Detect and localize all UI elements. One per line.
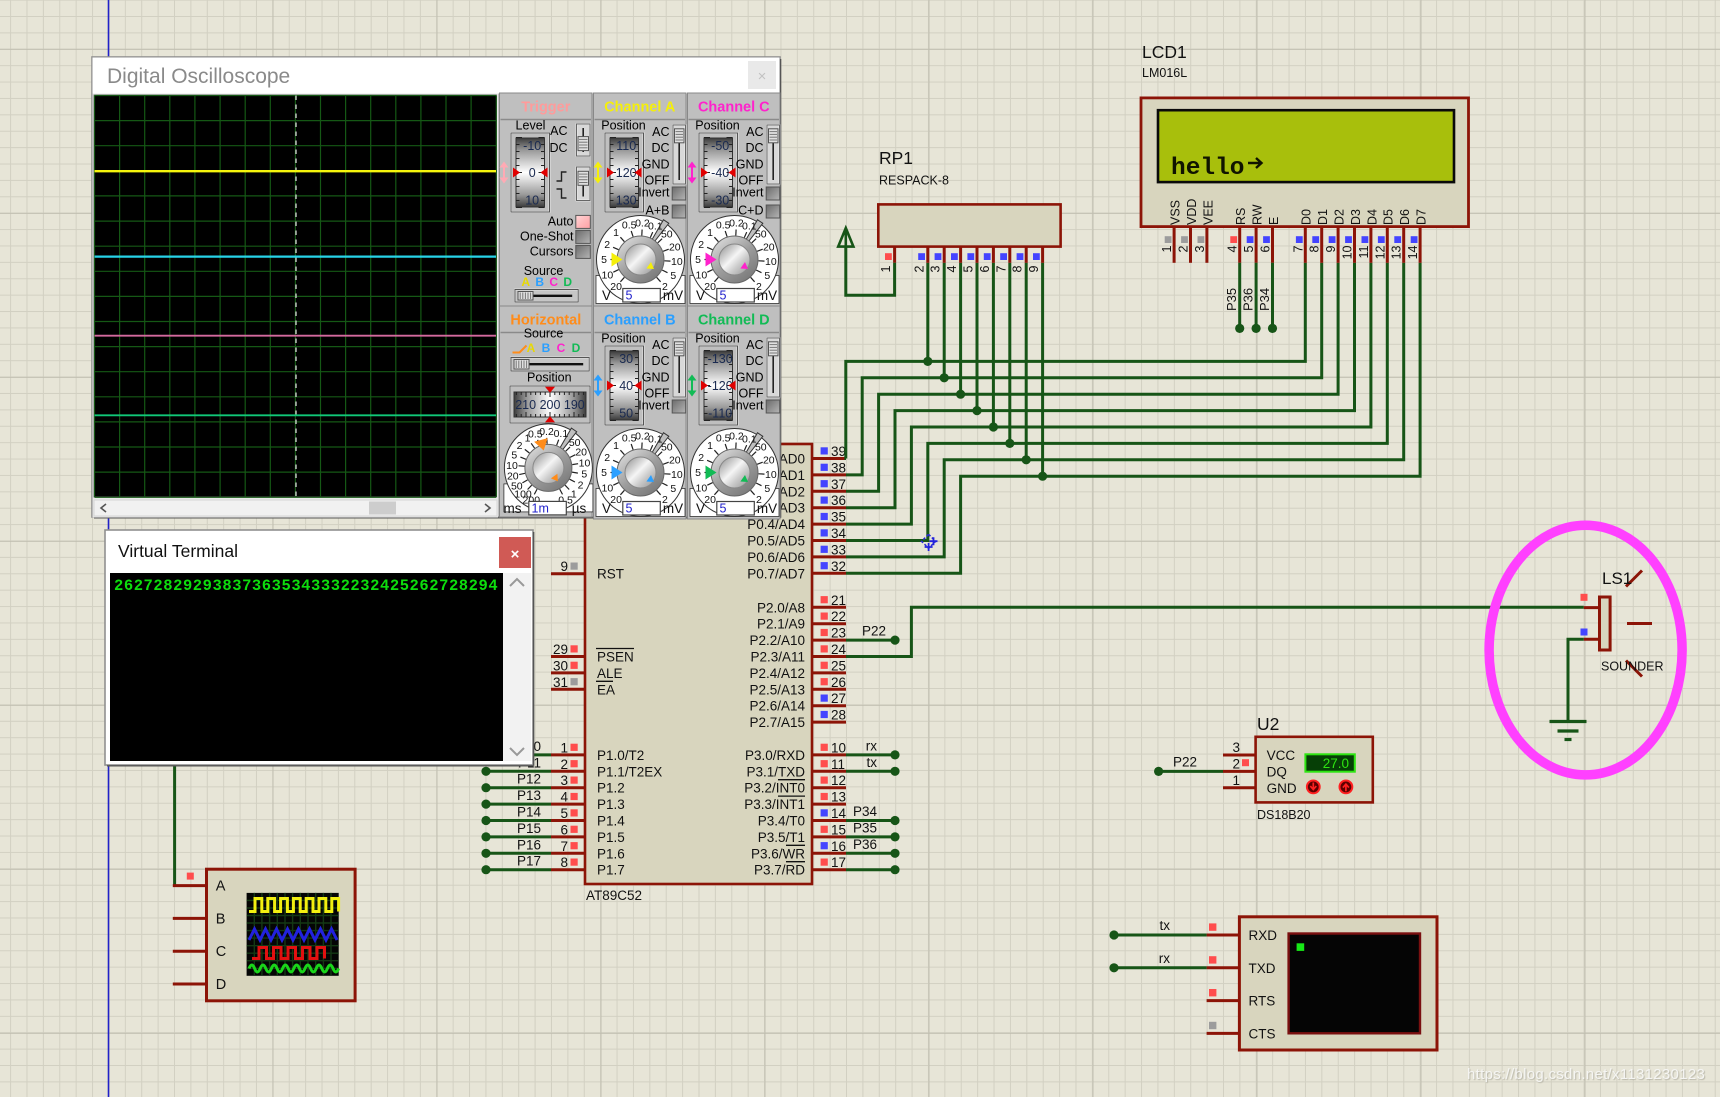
svg-text:tx: tx xyxy=(866,755,877,770)
wire RP1 pin 4 to bus xyxy=(959,263,962,394)
svg-text:-110: -110 xyxy=(708,407,732,421)
svg-text:B: B xyxy=(535,275,544,289)
Channel A panel xyxy=(594,93,687,306)
RP1 pin 9 xyxy=(1041,247,1044,263)
pin 25 stub (right) xyxy=(812,671,846,674)
svg-text:D3: D3 xyxy=(1349,209,1363,225)
svg-text:RST: RST xyxy=(597,567,624,582)
wire net P16 xyxy=(486,852,551,855)
trace D xyxy=(95,414,497,416)
svg-text:33: 33 xyxy=(831,542,846,557)
svg-text:One-Shot: One-Shot xyxy=(520,230,574,244)
svg-text:AC: AC xyxy=(652,338,669,352)
power symbol (VCC arrow) xyxy=(846,247,895,296)
svg-text:27.0: 27.0 xyxy=(1323,756,1349,771)
wire RP1 pin 7 to bus xyxy=(1008,263,1011,444)
svg-text:AT89C52: AT89C52 xyxy=(586,888,642,903)
svg-text:P1.0/T2: P1.0/T2 xyxy=(597,748,644,763)
svg-text:mV: mV xyxy=(663,288,683,303)
svg-text:5: 5 xyxy=(695,254,701,266)
svg-text:2: 2 xyxy=(698,452,704,464)
junction xyxy=(972,406,981,415)
scope pin B xyxy=(173,917,207,920)
svg-text:-10: -10 xyxy=(523,139,541,153)
svg-text:Digital Oscilloscope: Digital Oscilloscope xyxy=(107,65,290,88)
wire net P11 xyxy=(486,770,551,773)
svg-text:31: 31 xyxy=(553,675,568,690)
pin 33 stub (right) xyxy=(812,555,846,558)
oscilloscope window xyxy=(92,57,780,517)
svg-text:rx: rx xyxy=(1159,951,1170,966)
wire RP1 pin 5 to bus xyxy=(976,263,979,411)
svg-text:27: 27 xyxy=(831,691,846,706)
wire on P3.1 xyxy=(846,770,895,773)
svg-text:10: 10 xyxy=(765,256,777,268)
LCD pin 3 VEE xyxy=(1205,227,1208,263)
svg-text:D6: D6 xyxy=(1398,209,1412,225)
svg-text:P17: P17 xyxy=(517,854,541,869)
svg-text:Channel D: Channel D xyxy=(698,313,770,329)
svg-text:P36: P36 xyxy=(1241,288,1256,311)
svg-text:5: 5 xyxy=(962,265,976,272)
pin 1 stub (left) xyxy=(551,753,585,756)
wire net P22 to U2 DQ xyxy=(1159,770,1223,773)
svg-text:110: 110 xyxy=(616,139,636,153)
svg-text:5: 5 xyxy=(560,806,568,821)
green sine wave xyxy=(249,965,339,972)
svg-text:P2.5/A13: P2.5/A13 xyxy=(749,682,805,697)
svg-text:Cursors: Cursors xyxy=(530,245,574,259)
svg-text:5: 5 xyxy=(601,467,607,479)
pin 30 stub (left) xyxy=(551,671,585,674)
svg-text:P22: P22 xyxy=(862,624,886,639)
U2 pin 3 VCC xyxy=(1223,754,1256,757)
junction xyxy=(1005,439,1014,448)
svg-text:50: 50 xyxy=(755,442,767,454)
svg-text:C: C xyxy=(557,341,566,355)
svg-text:×: × xyxy=(758,68,767,85)
svg-text:P3.2/INT0: P3.2/INT0 xyxy=(744,781,805,796)
pin 11 stub (right) xyxy=(812,770,846,773)
svg-text:Auto: Auto xyxy=(548,215,574,229)
terminal pin CTS xyxy=(1207,1032,1240,1035)
svg-text:P3.0/RXD: P3.0/RXD xyxy=(745,748,805,763)
svg-text:Position: Position xyxy=(695,119,740,133)
LCD pin 7 D0 xyxy=(1304,227,1307,263)
wire P0.4 to LCD D4 xyxy=(846,263,1371,524)
svg-text:P15: P15 xyxy=(517,821,541,836)
svg-text:39: 39 xyxy=(831,444,846,459)
svg-text:P2.7/A15: P2.7/A15 xyxy=(749,715,805,730)
svg-text:Channel B: Channel B xyxy=(604,313,676,329)
svg-text:2: 2 xyxy=(517,440,523,452)
svg-text:34: 34 xyxy=(831,526,847,541)
svg-text:22: 22 xyxy=(831,609,846,624)
svg-text:RESPACK-8: RESPACK-8 xyxy=(879,174,949,188)
svg-text:9: 9 xyxy=(1324,245,1338,252)
svg-text:21: 21 xyxy=(831,593,846,608)
svg-text:P14: P14 xyxy=(517,805,542,820)
svg-text:7: 7 xyxy=(994,265,1008,272)
pin 24 stub (right) xyxy=(812,655,846,658)
svg-text:25: 25 xyxy=(831,658,846,673)
pin 7 stub (left) xyxy=(551,852,585,855)
svg-text:Position: Position xyxy=(601,332,646,346)
pin 16 stub (right) xyxy=(812,852,846,855)
svg-text:38: 38 xyxy=(831,460,846,475)
pin 15 stub (right) xyxy=(812,835,846,838)
wire P0.7 to LCD D7 xyxy=(846,263,1420,574)
pin 22 stub (right) xyxy=(812,622,846,625)
svg-text:6: 6 xyxy=(560,822,568,837)
svg-text:20: 20 xyxy=(763,242,775,254)
svg-text:16: 16 xyxy=(831,839,846,854)
svg-text:10: 10 xyxy=(579,457,591,469)
trigger cursor dashed xyxy=(295,96,297,498)
svg-text:262728292938373635343332232425: 262728292938373635343332232425262728294 xyxy=(114,577,498,595)
svg-text:RTS: RTS xyxy=(1249,994,1276,1009)
svg-text:tx: tx xyxy=(1159,918,1170,933)
wire net P13 xyxy=(486,803,551,806)
svg-text:4: 4 xyxy=(945,265,959,272)
RP1 pin 6 xyxy=(992,247,995,263)
wire on P3.5 xyxy=(846,835,895,838)
svg-text:14: 14 xyxy=(831,806,847,821)
svg-text:A+B: A+B xyxy=(646,204,670,218)
svg-text:Invert: Invert xyxy=(732,399,764,413)
svg-text:Trigger: Trigger xyxy=(521,100,571,116)
svg-text:0: 0 xyxy=(529,166,536,180)
svg-text:26: 26 xyxy=(831,675,846,690)
svg-text:29: 29 xyxy=(553,642,568,657)
virtual terminal instrument body xyxy=(1239,917,1437,1050)
svg-text:11: 11 xyxy=(1357,245,1371,258)
svg-text:P0.5/AD5: P0.5/AD5 xyxy=(747,534,805,549)
svg-text:28: 28 xyxy=(831,708,846,723)
scope pin A xyxy=(173,884,207,887)
svg-text:DC: DC xyxy=(745,354,763,368)
svg-text:12: 12 xyxy=(1373,245,1387,259)
svg-text:Invert: Invert xyxy=(638,186,670,200)
svg-text:11: 11 xyxy=(831,757,845,772)
U2 pin 2 DQ xyxy=(1223,770,1256,773)
LCD pin 4 RS xyxy=(1238,227,1241,263)
svg-text:7: 7 xyxy=(1291,245,1305,252)
svg-text:LCD1: LCD1 xyxy=(1142,42,1187,62)
junction xyxy=(989,422,998,431)
svg-text:30: 30 xyxy=(619,352,633,366)
LCD screen xyxy=(1158,110,1454,182)
svg-text:10: 10 xyxy=(602,269,614,281)
svg-text:A: A xyxy=(521,275,530,289)
pin 29 stub (left) xyxy=(551,655,585,658)
scope screen xyxy=(93,94,499,518)
svg-text:10: 10 xyxy=(671,256,683,268)
svg-text:AC: AC xyxy=(550,124,567,138)
terminal screen xyxy=(1289,934,1420,1034)
RP1 pin 8 xyxy=(1025,247,1028,263)
wire P0.5 to LCD D5 xyxy=(846,263,1387,541)
svg-text:P35: P35 xyxy=(1224,288,1239,311)
LCD pin 10 D3 xyxy=(1353,227,1356,263)
svg-text:5: 5 xyxy=(670,270,676,282)
scope mini screen xyxy=(247,893,339,976)
terminal pin TXD xyxy=(1207,966,1240,969)
svg-text:Invert: Invert xyxy=(638,399,670,413)
svg-text:Position: Position xyxy=(601,119,646,133)
svg-text:SOUNDER: SOUNDER xyxy=(1601,660,1664,674)
svg-text:TXD: TXD xyxy=(1249,961,1276,976)
svg-text:P34: P34 xyxy=(853,804,878,819)
LCD pin 8 D1 xyxy=(1320,227,1323,263)
svg-text:20: 20 xyxy=(610,281,622,293)
svg-text:AC: AC xyxy=(746,125,763,139)
highlight ellipse xyxy=(1489,525,1682,775)
sheet border (blue) xyxy=(108,0,110,1097)
wire on P3.7 xyxy=(846,868,895,871)
LCD pin 11 D4 xyxy=(1369,227,1372,263)
svg-text:P16: P16 xyxy=(517,837,541,852)
svg-text:7: 7 xyxy=(560,839,568,854)
svg-text:1: 1 xyxy=(879,265,893,272)
svg-text:6: 6 xyxy=(1259,245,1273,252)
pin 5 stub (left) xyxy=(551,819,585,822)
svg-text:-50: -50 xyxy=(711,139,729,153)
svg-text:GND: GND xyxy=(736,157,764,171)
RP1 pin 5 xyxy=(976,247,979,263)
svg-text:37: 37 xyxy=(831,477,846,492)
svg-text:C: C xyxy=(549,275,558,289)
pin 4 stub (left) xyxy=(551,803,585,806)
svg-text:20: 20 xyxy=(763,455,775,467)
svg-text:10: 10 xyxy=(506,460,518,472)
svg-text:P0.6/AD6: P0.6/AD6 xyxy=(747,550,805,565)
svg-text:B: B xyxy=(542,341,551,355)
svg-text:2: 2 xyxy=(698,239,704,251)
wire P0.2 to LCD D2 xyxy=(846,263,1338,492)
wire on P3.6 xyxy=(846,852,895,855)
svg-text:P1.4: P1.4 xyxy=(597,814,625,829)
svg-text:V: V xyxy=(696,501,705,516)
svg-text:-40: -40 xyxy=(711,166,729,180)
sounder LS1 xyxy=(1584,606,1600,609)
svg-text:20: 20 xyxy=(704,281,716,293)
RP1 pin 3 xyxy=(943,247,946,263)
svg-text:20: 20 xyxy=(610,494,622,506)
pin 2 stub (left) xyxy=(551,770,585,773)
svg-text:DC: DC xyxy=(651,141,669,155)
terminal pin RXD xyxy=(1207,934,1240,937)
svg-text:D0: D0 xyxy=(1300,209,1314,225)
svg-text:GND: GND xyxy=(642,157,670,171)
svg-text:D: D xyxy=(572,341,581,355)
blue triangle wave xyxy=(249,929,337,940)
svg-text:P3.7/RD: P3.7/RD xyxy=(754,863,805,878)
U2 display 27.0 xyxy=(1305,754,1354,771)
svg-text:9: 9 xyxy=(560,559,568,574)
svg-text:AC: AC xyxy=(746,338,763,352)
svg-text:3: 3 xyxy=(560,773,568,788)
svg-text:10: 10 xyxy=(525,194,539,208)
svg-text:EA: EA xyxy=(597,682,615,697)
svg-text:-30: -30 xyxy=(711,194,729,208)
pin 39 stub (right) xyxy=(812,457,846,460)
wire net P14 xyxy=(486,819,551,822)
terminal pin RTS xyxy=(1207,999,1240,1002)
svg-text:P1.5: P1.5 xyxy=(597,830,625,845)
svg-text:32: 32 xyxy=(831,559,846,574)
svg-text:P3.3/INT1: P3.3/INT1 xyxy=(744,797,805,812)
pin 28 stub (right) xyxy=(812,721,846,724)
wire P0.6 to LCD D6 xyxy=(846,263,1404,557)
ground symbol xyxy=(1550,720,1587,723)
wire RP1 pin 2 to bus xyxy=(926,263,929,362)
svg-text:×: × xyxy=(511,546,520,563)
microcontroller U1 AT89C52 body xyxy=(585,444,812,884)
svg-text:1: 1 xyxy=(560,740,568,755)
svg-text:Level: Level xyxy=(516,119,546,133)
svg-text:Channel A: Channel A xyxy=(604,100,676,116)
svg-text:2: 2 xyxy=(560,757,568,772)
svg-text:3: 3 xyxy=(1232,740,1240,755)
svg-text:D: D xyxy=(216,977,226,993)
svg-text:PSEN: PSEN xyxy=(597,650,634,665)
wire P0.1 to LCD D1 xyxy=(846,263,1322,475)
svg-text:P36: P36 xyxy=(853,837,877,852)
svg-text:P22: P22 xyxy=(1173,754,1197,769)
svg-text:P3.6/WR: P3.6/WR xyxy=(751,846,805,861)
svg-text:50: 50 xyxy=(661,229,673,241)
junction xyxy=(940,373,949,382)
svg-text:-120: -120 xyxy=(708,379,733,393)
svg-text:hello: hello xyxy=(1171,155,1245,182)
svg-text:RW: RW xyxy=(1251,204,1265,225)
svg-text:mV: mV xyxy=(757,501,777,516)
svg-text:VEE: VEE xyxy=(1201,200,1215,225)
pin 35 stub (right) xyxy=(812,523,846,526)
svg-text:P1.1/T2EX: P1.1/T2EX xyxy=(597,764,662,779)
pin 9 stub (left) xyxy=(551,572,585,575)
svg-text:5: 5 xyxy=(720,289,727,303)
svg-text:P2.1/A9: P2.1/A9 xyxy=(757,617,805,632)
yellow square wave xyxy=(249,899,339,912)
svg-text:50: 50 xyxy=(755,229,767,241)
svg-text:10: 10 xyxy=(1341,245,1355,259)
svg-text:1: 1 xyxy=(707,440,713,452)
svg-text:50: 50 xyxy=(661,442,673,454)
svg-text:DQ: DQ xyxy=(1267,764,1287,779)
svg-text:Virtual Terminal: Virtual Terminal xyxy=(118,541,238,561)
svg-text:P2.0/A8: P2.0/A8 xyxy=(757,600,805,615)
svg-text:12: 12 xyxy=(831,773,846,788)
LCD pin 5 RW xyxy=(1255,227,1258,263)
svg-text:40: 40 xyxy=(619,379,633,393)
junction xyxy=(956,390,965,399)
Channel C panel xyxy=(688,93,781,306)
red square wave xyxy=(252,948,325,959)
pin 26 stub (right) xyxy=(812,688,846,691)
svg-text:5: 5 xyxy=(1242,245,1256,252)
pin 38 stub (right) xyxy=(812,473,846,476)
svg-text:13: 13 xyxy=(1390,245,1404,259)
svg-text:Source: Source xyxy=(524,327,564,341)
svg-text:VDD: VDD xyxy=(1185,199,1199,225)
svg-text:10: 10 xyxy=(696,482,708,494)
svg-text:15: 15 xyxy=(831,822,846,837)
selection diamond marker xyxy=(922,534,936,548)
svg-text:24: 24 xyxy=(831,642,847,657)
svg-text:2: 2 xyxy=(912,265,926,272)
LCD pin 2 VDD xyxy=(1189,227,1192,263)
svg-text:Channel C: Channel C xyxy=(698,100,770,116)
svg-text:P3.1/TXD: P3.1/TXD xyxy=(746,764,805,779)
svg-text:20: 20 xyxy=(704,494,716,506)
svg-text:P2.2/A10: P2.2/A10 xyxy=(749,633,805,648)
resistor pack RP1 RESPACK-8 body xyxy=(878,204,1060,246)
svg-text:U2: U2 xyxy=(1257,714,1279,734)
svg-text:1: 1 xyxy=(1232,773,1240,788)
pin 36 stub (right) xyxy=(812,506,846,509)
trace B xyxy=(95,256,497,258)
svg-text:µs: µs xyxy=(572,501,587,516)
svg-text:5: 5 xyxy=(670,483,676,495)
svg-text:4: 4 xyxy=(560,790,568,805)
svg-text:8: 8 xyxy=(1308,245,1322,252)
pin 10 stub (right) xyxy=(812,753,846,756)
scrollbar xyxy=(94,500,497,516)
wire RP1 pin 9 to bus xyxy=(1041,263,1044,476)
scope pin C xyxy=(173,950,207,953)
svg-text:GND: GND xyxy=(736,370,764,384)
svg-text:10: 10 xyxy=(831,740,846,755)
wire P2.3 to sounder LS1 xyxy=(846,607,1584,656)
svg-text:3: 3 xyxy=(929,265,943,272)
U2 pin 1 GND xyxy=(1223,786,1256,789)
pin 31 stub (left) xyxy=(551,688,585,691)
svg-text:2: 2 xyxy=(604,239,610,251)
wire RP1 pin 8 to bus xyxy=(1025,263,1028,460)
LCD pin 6 E xyxy=(1271,227,1274,263)
junction xyxy=(1022,455,1031,464)
svg-text:1: 1 xyxy=(613,440,619,452)
U2 down button xyxy=(1307,781,1320,794)
svg-text:P35: P35 xyxy=(853,820,877,835)
svg-text:30: 30 xyxy=(553,658,568,673)
pin 6 stub (left) xyxy=(551,835,585,838)
svg-text:VSS: VSS xyxy=(1169,200,1183,225)
svg-text:0.1: 0.1 xyxy=(554,428,569,440)
LCD pin 1 VSS xyxy=(1173,227,1176,263)
svg-text:A: A xyxy=(216,879,226,895)
svg-text:P34: P34 xyxy=(1257,288,1272,311)
svg-text:CTS: CTS xyxy=(1249,1026,1276,1041)
svg-text:2: 2 xyxy=(1177,245,1191,252)
RP1 pin 4 xyxy=(959,247,962,263)
pin 32 stub (right) xyxy=(812,572,846,575)
svg-text:D4: D4 xyxy=(1365,209,1379,225)
svg-text:5: 5 xyxy=(764,483,770,495)
svg-text:8: 8 xyxy=(560,855,568,870)
wire net P22 from P2.2 xyxy=(846,639,895,642)
svg-text:10: 10 xyxy=(765,469,777,481)
LCD1 LM016L body xyxy=(1141,98,1469,227)
wire to oscilloscope pin A xyxy=(173,700,176,886)
svg-text:5: 5 xyxy=(764,270,770,282)
svg-text:C: C xyxy=(216,944,226,960)
svg-text:VCC: VCC xyxy=(1267,748,1296,763)
svg-text:P0.7/AD7: P0.7/AD7 xyxy=(747,566,805,581)
svg-text:23: 23 xyxy=(831,626,846,641)
